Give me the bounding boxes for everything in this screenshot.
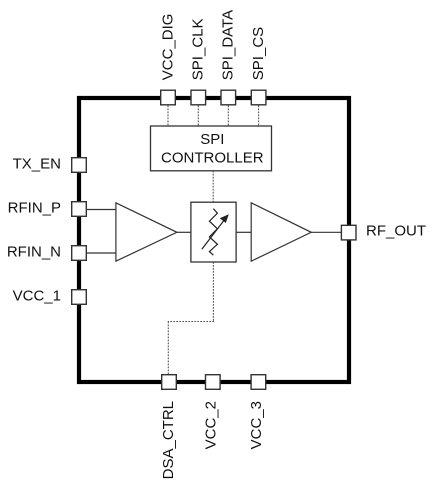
svg-text:SPI_DATA: SPI_DATA [220, 10, 237, 80]
svg-text:SPI_CLK: SPI_CLK [190, 18, 207, 80]
svg-text:VCC_DIG: VCC_DIG [159, 14, 176, 81]
svg-text:RF_OUT: RF_OUT [366, 222, 426, 239]
svg-text:SPI: SPI [200, 131, 224, 148]
svg-text:VCC_3: VCC_3 [248, 401, 265, 449]
svg-text:CONTROLLER: CONTROLLER [161, 149, 264, 166]
svg-text:RFIN_P: RFIN_P [8, 200, 61, 217]
svg-text:TX_EN: TX_EN [13, 156, 61, 173]
svg-text:VCC_1: VCC_1 [13, 288, 61, 305]
svg-text:SPI_CS: SPI_CS [250, 27, 267, 80]
svg-text:RFIN_N: RFIN_N [7, 244, 61, 261]
svg-text:DSA_CTRL: DSA_CTRL [160, 401, 177, 479]
svg-text:VCC_2: VCC_2 [203, 401, 220, 449]
